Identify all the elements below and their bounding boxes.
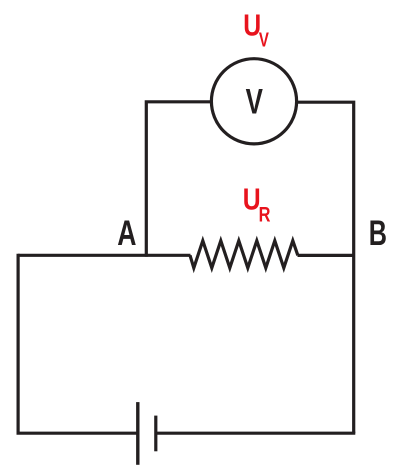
wire bottom right (156, 432, 355, 435)
wire node A horizontal (18, 254, 190, 257)
wire voltmeter left (146, 102, 212, 257)
wire resistor to B (298, 254, 354, 257)
svg-text:R: R (259, 203, 271, 226)
node A (117, 213, 136, 252)
battery negative plate (154, 416, 157, 452)
label U_V (243, 8, 269, 51)
battery positive plate (136, 402, 139, 465)
wire left vertical (17, 254, 20, 434)
svg-text:A: A (117, 213, 136, 252)
svg-text:B: B (369, 214, 387, 253)
node B (369, 214, 387, 253)
resistor R (190, 241, 298, 268)
svg-text:V: V (259, 28, 269, 51)
label U_R (243, 182, 271, 226)
voltmeter U1 (211, 59, 296, 144)
wire voltmeter right and right vertical to bottom (296, 102, 354, 433)
svg-text:V: V (246, 82, 264, 122)
wire bottom left (17, 432, 138, 435)
